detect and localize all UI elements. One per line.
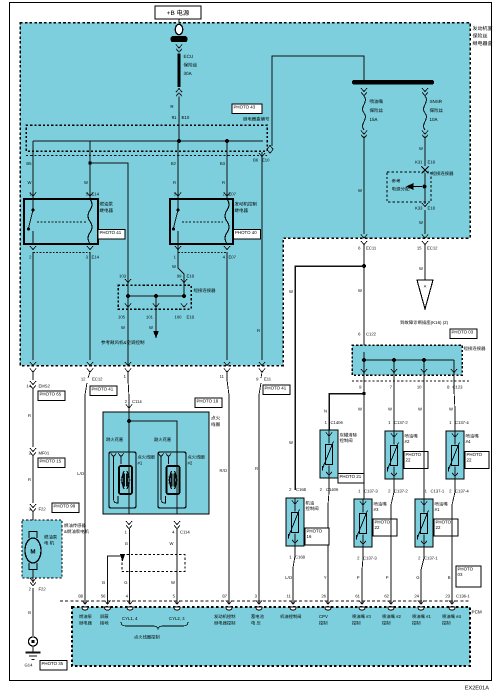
dashed connector line under engine relay: [178, 252, 227, 254]
svg-text:22: 22: [406, 457, 411, 462]
svg-text:电源分配: 电源分配: [392, 187, 410, 192]
svg-text:到故障诊断插座(K16) (2): 到故障诊断插座(K16) (2): [400, 320, 449, 325]
svg-text:W: W: [449, 407, 453, 412]
svg-text:K31: K31: [415, 160, 423, 165]
wire region edge to C114: [128, 372, 129, 412]
wire purge to ECU pin26: [328, 478, 329, 604]
spark plug symbol coil2: [158, 454, 163, 457]
shield ground wire to ECU pin56: [108, 556, 122, 604]
svg-text:W: W: [419, 146, 423, 151]
svg-text:W: W: [358, 188, 362, 193]
svg-text:L/O: L/O: [77, 471, 84, 476]
svg-text:燃油传感器: 燃油传感器: [64, 523, 87, 528]
wire +B feed to fusible link: [178, 19, 180, 24]
fusible link terminal (oval): [175, 24, 183, 34]
fusible link body (black bar): [171, 36, 188, 42]
svg-text:电 机: 电 机: [44, 541, 55, 546]
svg-text:22: 22: [467, 457, 472, 462]
engine relay pins bottom chevrons: [175, 246, 181, 250]
chevrons crossing region edge (EC12 wire): [87, 362, 93, 366]
wire EC11 to junction: [363, 245, 365, 346]
wire K33 to EC12: [424, 210, 426, 234]
svg-text:22: 22: [436, 525, 441, 530]
shield box around coil wires (dashed): [122, 555, 185, 572]
relay fuel pump mechanical link (dashed): [37, 221, 86, 223]
svg-text:线圈: 线圈: [211, 422, 221, 427]
chevron 103: [125, 279, 131, 283]
svg-text:W: W: [419, 220, 423, 225]
connector EC12 pin12: [88, 372, 90, 378]
chevron into engine relay pin5: [175, 193, 181, 197]
junction dot injector feed split: [362, 264, 366, 268]
svg-text:继电器盒编号: 继电器盒编号: [243, 117, 270, 122]
chevron into C123 jumper: [361, 348, 367, 352]
photo ref 65: [38, 391, 65, 401]
ignition coil 1 windings: [119, 466, 132, 494]
branch wire to jumper 103: [90, 163, 128, 285]
svg-text:短接连接器: 短接连接器: [432, 171, 455, 176]
svg-text:喷油嘴 #2: 喷油嘴 #2: [382, 614, 401, 619]
svg-text:C137-4: C137-4: [455, 420, 469, 425]
chevrons crossing region edge (fuel pump wire): [30, 362, 36, 366]
svg-text:控制阀: 控制阀: [306, 506, 319, 511]
wire 10A fuse to K31: [424, 137, 426, 167]
svg-text:喷油嘴 #1: 喷油嘴 #1: [412, 614, 431, 619]
svg-text:C137-3: C137-3: [363, 556, 377, 561]
chevrons crossing region edge (coil supply): [125, 362, 131, 366]
svg-text:发动机室: 发动机室: [473, 25, 493, 32]
fuse clip lower chevrons: [176, 89, 182, 93]
branch wire to purge valve: [329, 394, 364, 431]
photo ref 03 diag: [450, 329, 477, 339]
svg-text:EC12: EC12: [92, 377, 103, 382]
svg-text:CYL2, 3: CYL2, 3: [169, 616, 185, 621]
svg-text:控制: 控制: [382, 621, 391, 626]
svg-text:点火线圈: 点火线圈: [138, 455, 155, 460]
svg-text:03: 03: [458, 572, 463, 577]
svg-text:R: R: [222, 180, 225, 185]
connector E11 pin9: [261, 372, 262, 378]
jumper connector box (dashed): [118, 285, 191, 309]
svg-text:#2: #2: [405, 439, 410, 444]
svg-text:EC11: EC11: [366, 246, 377, 251]
wire EMS2 to MF01: [32, 389, 34, 447]
svg-text:W: W: [358, 288, 362, 293]
svg-text:P: P: [386, 575, 389, 580]
relay fuel pump coil: [88, 199, 92, 244]
svg-text:B3: B3: [220, 161, 226, 166]
svg-text:B: B: [102, 580, 105, 585]
fuel pump motor top bracket: [29, 532, 37, 539]
wire 15A fuse to EC11 pin6: [363, 137, 365, 235]
svg-text:C122: C122: [366, 332, 377, 337]
oil control valve: [286, 498, 304, 546]
bus junction dot at ECU fuse: [177, 139, 181, 143]
photo ref 40 engine control relay: [234, 230, 261, 240]
svg-text:E10: E10: [182, 115, 190, 120]
chevron battery sense top: [259, 153, 265, 157]
relay engine control box: [170, 199, 233, 244]
svg-text:M: M: [30, 549, 35, 556]
svg-text:E18: E18: [428, 206, 436, 211]
svg-text:#1: #1: [138, 460, 143, 465]
svg-text:11: 11: [220, 374, 225, 379]
svg-text:C136-1: C136-1: [456, 594, 470, 599]
svg-text:15A: 15A: [370, 117, 378, 122]
wire inj4 to ECU pin23: [452, 479, 455, 604]
connector C114 pins 1 and 4: [126, 521, 132, 525]
wire C123 pin10 down: [423, 375, 425, 499]
wire C123 pin9 down with branch: [363, 375, 365, 499]
svg-text:PHOTO 65: PHOTO 65: [40, 392, 62, 397]
svg-text:燃油泵: 燃油泵: [44, 535, 58, 540]
svg-text:K33: K33: [415, 206, 423, 211]
svg-text:控制阀: 控制阀: [340, 438, 353, 443]
svg-text:控制: 控制: [412, 621, 421, 626]
wire engine relay E07-4 to ECU pin87: [226, 252, 228, 360]
svg-text:101: 101: [146, 315, 154, 320]
wire EC12 to diag triangle: [424, 245, 426, 280]
wire inj2 to ECU pin62: [391, 479, 394, 604]
jumper X symbol: [422, 167, 429, 174]
C123 exit chevrons: [361, 369, 367, 373]
wire C123 pin8 down: [454, 375, 455, 431]
svg-text:88: 88: [78, 594, 83, 599]
svg-text:24: 24: [414, 594, 419, 599]
connector C114 pin2: [126, 405, 132, 409]
svg-text:SNSR: SNSR: [430, 99, 443, 104]
svg-text:电 压: 电 压: [251, 621, 261, 626]
svg-text:跳火花塞: 跳火花塞: [106, 437, 124, 442]
relay fuel pump box: [24, 199, 98, 244]
svg-text:E18: E18: [428, 160, 436, 165]
svg-text:W: W: [121, 325, 125, 330]
spark plug symbol coil1: [111, 454, 116, 457]
injector #2: [385, 431, 403, 479]
wire jumper 105 to ignition coil supply: [127, 309, 129, 365]
svg-text:炭罐清除: 炭罐清除: [340, 433, 358, 438]
svg-text:PHOTO 99: PHOTO 99: [54, 504, 76, 509]
jumper bottom chevrons: [125, 304, 131, 308]
svg-text:EX2E01A: EX2E01A: [465, 686, 490, 692]
photo ref 43 relay box: [232, 104, 262, 114]
svg-text:R: R: [255, 466, 258, 471]
svg-text:91: 91: [172, 115, 177, 120]
bus junction dot at engine relay coil: [225, 139, 229, 143]
wire relay coil pin to EC12: [89, 252, 91, 360]
svg-text:10A: 10A: [430, 117, 438, 122]
connector F22 pin3: [30, 504, 36, 508]
relay engine control mechanical link (dashed): [182, 221, 223, 223]
chevron into engine relay coil: [224, 193, 230, 197]
svg-text:14: 14: [26, 384, 31, 389]
extra dashed rail under band: [26, 155, 267, 157]
svg-text:26: 26: [321, 594, 326, 599]
fuse SNSR 10A element: [424, 96, 427, 130]
wire coil1 control to ECU pin4: [129, 529, 131, 604]
svg-text:PHOTO 21: PHOTO 21: [340, 474, 362, 479]
C123 jumper bus: [364, 359, 454, 361]
wire band to battery sense EC11: [261, 152, 263, 360]
wire pump to F22 pin2: [32, 570, 34, 584]
svg-text:22: 22: [375, 525, 380, 530]
svg-text:喷油嘴 #3: 喷油嘴 #3: [352, 614, 371, 619]
svg-text:W: W: [289, 440, 293, 445]
fuse injector 15A clip top: [361, 88, 367, 92]
injector #3: [354, 499, 372, 547]
svg-text:B2: B2: [171, 161, 177, 166]
fuel pump motor bottom bracket: [29, 563, 37, 570]
svg-text:参考鼓风机&空调控制: 参考鼓风机&空调控制: [101, 340, 145, 345]
chevron into relay pin1: [30, 193, 36, 197]
svg-text:16: 16: [307, 534, 312, 539]
svg-text:PHOTO 41: PHOTO 41: [265, 386, 287, 391]
svg-text:PHOTO 41: PHOTO 41: [100, 230, 122, 235]
svg-text:接地: 接地: [100, 621, 109, 626]
svg-text:R/O: R/O: [220, 468, 228, 473]
svg-text:23: 23: [445, 594, 450, 599]
svg-text:12: 12: [81, 377, 86, 382]
wire band to engine relay coil pin2/E07: [226, 141, 228, 199]
coil2 wire to bottom: [176, 452, 178, 514]
C123 vertical stubs: [363, 352, 365, 375]
injector #4: [446, 431, 464, 479]
dashed connector line under fuel pump relay: [33, 252, 90, 254]
svg-text:ECU: ECU: [184, 54, 194, 59]
svg-text:燃油泵: 燃油泵: [79, 614, 93, 619]
svg-text:E14: E14: [92, 192, 100, 197]
svg-text:MF01: MF01: [39, 451, 50, 456]
svg-text:C1406: C1406: [326, 487, 339, 492]
thin dashed line above ECU: [60, 600, 470, 602]
svg-text:继电器: 继电器: [100, 208, 114, 213]
wire inj3 to ECU pin61: [362, 547, 363, 604]
svg-text:PHOTO 35: PHOTO 35: [42, 661, 64, 666]
wire engine relay pin1 to jumper 99: [178, 244, 184, 296]
svg-text:G14: G14: [25, 663, 34, 668]
bus right end chevron to B6/E10: [267, 146, 273, 150]
svg-text:P: P: [357, 575, 360, 580]
svg-text:#2: #2: [188, 460, 193, 465]
power distribution bus band (dashed): [26, 125, 267, 151]
wire F22 into pump box: [32, 512, 34, 531]
injector jumper box (cyan dashed): [352, 345, 462, 375]
svg-text:继电器控制: 继电器控制: [214, 621, 235, 626]
chevrons EC12 crossing right: [422, 235, 428, 239]
svg-text:喷油嘴: 喷油嘴: [370, 99, 384, 104]
svg-text:喷油嘴: 喷油嘴: [466, 434, 480, 439]
svg-text:105: 105: [118, 315, 126, 320]
power distribution ref box (dashed): [387, 172, 431, 202]
coil supply junction dot: [127, 419, 131, 423]
fuse SNSR 10A clip top: [422, 88, 428, 92]
power dist arrow: [413, 186, 422, 188]
wire coil2 control to ECU pin5: [176, 529, 178, 604]
svg-text:C137-1: C137-1: [431, 489, 445, 494]
svg-text:机油: 机油: [306, 501, 315, 506]
svg-text:短接连接器: 短接连接器: [464, 346, 487, 351]
ignition coil assembly box: [103, 412, 209, 514]
svg-text:E07: E07: [229, 192, 237, 197]
svg-text:W: W: [388, 407, 392, 412]
svg-text:W: W: [172, 264, 176, 269]
wire K31 to K33: [424, 173, 426, 204]
wire EC12 to ECU pin88: [85, 383, 87, 604]
engine-room fuse/relay box region (cyan): [20, 23, 470, 366]
svg-text:E18: E18: [187, 315, 195, 320]
svg-text:N: N: [324, 409, 327, 414]
svg-text:87: 87: [222, 594, 227, 599]
chevrons crossing region edge (engine relay out): [224, 362, 230, 366]
wire relay pin2 down to fuel pump: [32, 252, 34, 360]
svg-text:发动机控制: 发动机控制: [235, 202, 258, 207]
C123 junction dots: [362, 358, 366, 362]
wire F22 pin2 to ground: [32, 588, 34, 636]
svg-text:喷油嘴 #4: 喷油嘴 #4: [442, 614, 461, 619]
wire C123 pin7 down: [393, 375, 395, 431]
photo ref 35 ground: [40, 661, 67, 671]
relay engine control switch contact: [177, 199, 179, 209]
svg-text:W: W: [358, 407, 362, 412]
wire jumper 101 to blower ref arrow: [155, 309, 157, 331]
svg-text:EMS2: EMS2: [39, 384, 51, 389]
svg-text:喷油嘴: 喷油嘴: [374, 502, 388, 507]
svg-text:C137-2: C137-2: [394, 420, 408, 425]
svg-text:E07: E07: [229, 255, 237, 260]
svg-text:保险丝: 保险丝: [370, 108, 384, 113]
svg-text:L/O: L/O: [285, 575, 292, 580]
wire band to fuel-pump relay coil pin: [89, 141, 91, 199]
svg-text:参考: 参考: [392, 179, 401, 184]
svg-text:Y: Y: [324, 575, 327, 580]
svg-text:C1406: C1406: [331, 420, 344, 425]
svg-text:继电器盒: 继电器盒: [473, 40, 493, 47]
ignition coil 1 box: [109, 452, 136, 508]
svg-text:W: W: [28, 180, 32, 185]
svg-text:B: B: [448, 575, 451, 580]
svg-text:W: W: [171, 580, 175, 585]
svg-text:103: 103: [119, 274, 127, 279]
photo ref 18 ignition coil: [195, 398, 222, 408]
connector MF01 pin2: [30, 448, 36, 452]
wire E11 to ECU pin3: [259, 383, 261, 604]
junction dot purge branch: [362, 392, 365, 395]
dashed line under C123: [352, 380, 470, 382]
svg-text:PHOTO 43: PHOTO 43: [234, 105, 256, 110]
svg-text:W: W: [84, 180, 88, 185]
svg-text:E18: E18: [187, 274, 195, 279]
svg-text:保险丝: 保险丝: [430, 108, 444, 113]
ignition coil 2 box: [158, 452, 186, 508]
svg-text:点火线圈: 点火线圈: [188, 455, 205, 460]
svg-text:发动机控制: 发动机控制: [214, 614, 235, 619]
photo ref 99: [52, 503, 79, 513]
svg-text:R: R: [257, 328, 260, 333]
svg-text:C137-2: C137-2: [394, 489, 408, 494]
svg-text:E14: E14: [92, 255, 100, 260]
svg-text:保险丝: 保险丝: [473, 33, 488, 40]
svg-text:W: W: [418, 407, 422, 412]
fuse ECU 30A element (thick line): [177, 54, 180, 88]
svg-text:C168: C168: [296, 487, 307, 492]
fuel pump motor circle M: [25, 538, 41, 563]
svg-text:E10: E10: [262, 158, 270, 163]
coil supply branch wire: [128, 412, 130, 452]
chevrons EC11 crossing: [361, 235, 367, 239]
svg-text:#1: #1: [435, 507, 440, 512]
svg-text:W: W: [149, 325, 153, 330]
svg-text:#3: #3: [374, 507, 379, 512]
coil1 wire to bottom: [128, 452, 130, 514]
chevrons crossing region edge (battery sense R): [259, 362, 265, 366]
svg-text:B: B: [28, 610, 31, 615]
svg-text:B5: B5: [26, 161, 32, 166]
ignition coil 2 windings: [167, 466, 180, 494]
svg-text:C137-3: C137-3: [364, 489, 378, 494]
purge control valve: [320, 430, 338, 478]
wire OCV to ECU pin11: [293, 546, 295, 604]
wire inj1 to ECU pin24: [421, 547, 424, 604]
chevron into relay coil: [87, 193, 93, 197]
svg-text:B6: B6: [253, 158, 259, 163]
svg-text:10: 10: [417, 385, 422, 390]
svg-text:F22: F22: [39, 507, 47, 512]
svg-text:屏蔽: 屏蔽: [100, 614, 109, 619]
svg-text:A: A: [424, 285, 427, 289]
ECU pin cavities: [82, 607, 88, 610]
jumper bus line: [128, 295, 184, 297]
bus line in band: [33, 140, 263, 142]
svg-text:PHOTO 40: PHOTO 40: [235, 230, 257, 235]
svg-text:G: G: [125, 541, 128, 546]
svg-text:控制: 控制: [319, 621, 328, 626]
photo ref 41 EC12: [90, 386, 117, 396]
fuse clip upper chevrons: [176, 45, 182, 49]
svg-text:继电器: 继电器: [235, 208, 249, 213]
svg-text:短接连接器: 短接连接器: [194, 288, 217, 293]
svg-text:PCM: PCM: [472, 610, 482, 615]
svg-text:30A: 30A: [184, 71, 193, 76]
connector F22 pin2 below pump: [30, 578, 36, 582]
svg-text:11: 11: [287, 594, 292, 599]
reference triangle to data link: [417, 280, 433, 309]
jumper wires through box: [127, 285, 129, 309]
svg-text:PHOTO 41: PHOTO 41: [92, 387, 114, 392]
svg-text:+B 电源: +B 电源: [167, 9, 190, 17]
svg-text:PHOTO 15: PHOTO 15: [40, 459, 62, 464]
chevron 99 E18: [181, 279, 187, 283]
photo ref 03 bottom right: [456, 566, 481, 587]
wire region edge to EMS2: [32, 372, 34, 380]
svg-text:W: W: [289, 289, 293, 294]
svg-text:继电器: 继电器: [79, 621, 93, 626]
svg-text:C168: C168: [295, 555, 306, 560]
svg-text:W: W: [170, 541, 174, 546]
photo ref 15: [38, 458, 65, 468]
svg-text:PHOTO 18: PHOTO 18: [197, 399, 219, 404]
svg-text:G: G: [416, 575, 419, 580]
relay engine control coil: [225, 199, 229, 244]
ignition coil control brace: [121, 622, 188, 630]
svg-text:副火花塞: 副火花塞: [154, 437, 172, 442]
svg-text:C114: C114: [180, 530, 190, 535]
svg-text:机油控制阀: 机油控制阀: [280, 614, 301, 619]
svg-text:R: R: [173, 180, 176, 185]
svg-text:F22: F22: [39, 587, 47, 592]
svg-text:R: R: [28, 413, 31, 418]
ground G14 symbol: [28, 637, 37, 646]
svg-text:控制: 控制: [352, 621, 361, 626]
